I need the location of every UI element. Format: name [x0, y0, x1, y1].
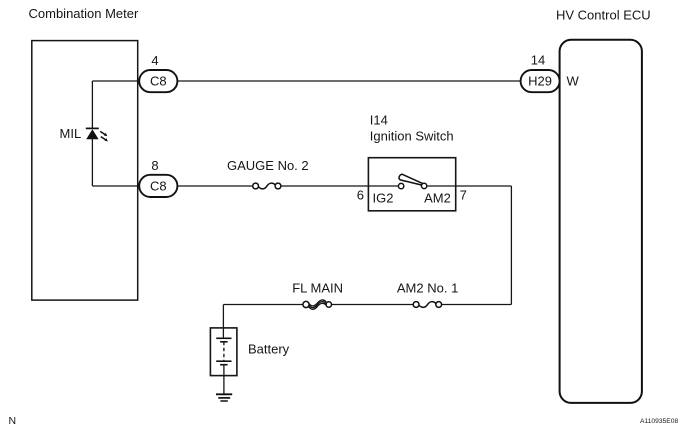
ignition switch box I14	[368, 158, 455, 211]
wire switch to corner	[456, 185, 512, 187]
wire fuse to ignition switch	[281, 185, 369, 187]
switch contact IG2	[398, 183, 403, 188]
svg-text:A110935E08: A110935E08	[640, 418, 678, 425]
svg-text:Combination Meter: Combination Meter	[29, 6, 139, 21]
wire inside switch right	[427, 185, 456, 187]
battery box	[210, 328, 237, 376]
svg-text:Battery: Battery	[248, 342, 290, 357]
svg-text:4: 4	[151, 53, 158, 68]
wire meter internal bottom	[92, 185, 141, 187]
wire meter internal top	[92, 80, 141, 82]
battery plate short top	[220, 341, 228, 343]
battery plate long top	[216, 337, 231, 339]
svg-text:C8: C8	[150, 74, 167, 89]
battery stub to ground	[223, 365, 225, 395]
wire bottom right segment	[442, 304, 512, 306]
svg-text:7: 7	[460, 188, 467, 203]
wire FL MAIN to battery	[223, 304, 303, 306]
switch contact AM2	[421, 183, 426, 188]
wire between fuses	[332, 304, 414, 306]
wire C8-4 to H29	[177, 80, 520, 82]
wire inside switch left	[368, 185, 398, 187]
svg-text:IG2: IG2	[373, 191, 394, 206]
svg-text:AM2: AM2	[424, 191, 451, 206]
connector C8 pin 8	[139, 175, 177, 197]
HV control ECU box	[560, 40, 642, 403]
svg-text:HV Control ECU: HV Control ECU	[556, 7, 651, 22]
switch lever	[399, 174, 423, 185]
battery plate short bottom	[220, 364, 228, 366]
svg-text:MIL: MIL	[60, 126, 82, 141]
LED MIL triangle	[86, 129, 98, 139]
LED MIL cathode bar	[86, 127, 99, 129]
fuse AM2 No. 1	[413, 302, 441, 308]
fusible link FL MAIN	[303, 300, 332, 309]
svg-text:C8: C8	[150, 179, 167, 194]
svg-text:H29: H29	[528, 74, 552, 89]
ground symbol	[216, 394, 232, 401]
svg-text:8: 8	[151, 158, 158, 173]
combination meter box	[32, 41, 138, 301]
svg-text:I14: I14	[370, 112, 388, 127]
svg-text:Ignition Switch: Ignition Switch	[370, 129, 454, 144]
wire meter internal vertical	[91, 81, 93, 128]
svg-text:W: W	[567, 74, 580, 89]
wire C8-8 to fuse	[177, 185, 252, 187]
battery plate long bottom	[216, 360, 231, 362]
battery dashed link	[223, 342, 225, 361]
svg-text:6: 6	[357, 188, 364, 203]
svg-text:FL MAIN: FL MAIN	[292, 281, 343, 296]
fuse GAUGE No. 2	[253, 183, 281, 189]
wire battery drop	[222, 305, 224, 339]
connector C8 pin 4	[139, 70, 177, 92]
svg-text:GAUGE No. 2: GAUGE No. 2	[227, 158, 309, 173]
LED MIL light arrow 2	[101, 137, 108, 142]
LED MIL light arrow 1	[100, 131, 107, 136]
svg-text:14: 14	[531, 53, 545, 68]
svg-text:AM2 No. 1: AM2 No. 1	[397, 281, 458, 296]
svg-text:N: N	[9, 415, 17, 427]
wire vertical right	[510, 186, 512, 305]
connector H29 pin 14	[521, 70, 560, 92]
